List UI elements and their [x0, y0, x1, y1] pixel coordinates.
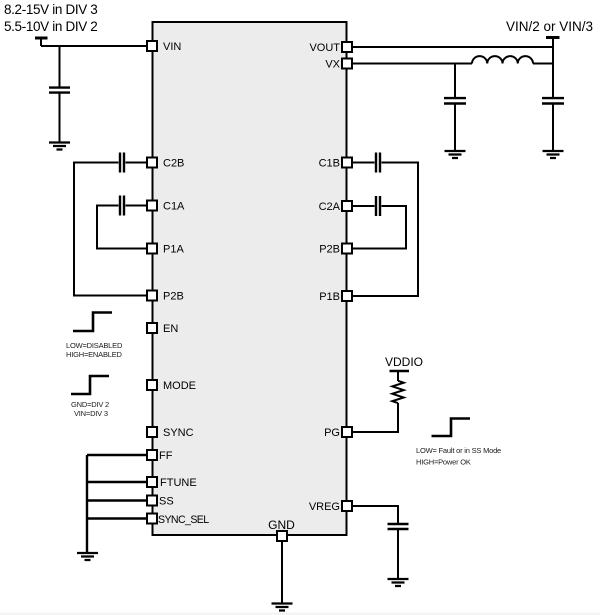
svg-text:VIN/2 or VIN/3: VIN/2 or VIN/3	[506, 19, 593, 34]
wire FF	[87, 454, 147, 456]
pin C1B	[319, 158, 352, 170]
pin C2A	[319, 201, 352, 213]
wire VIN input	[41, 45, 147, 47]
svg-text:P2B: P2B	[163, 291, 184, 303]
pin P2B left	[147, 291, 184, 303]
svg-text:EN: EN	[163, 323, 178, 335]
wire output node vertical	[552, 39, 554, 150]
svg-text:LOW=DISABLED: LOW=DISABLED	[66, 341, 123, 350]
pin VIN	[147, 41, 181, 53]
text EN levels	[66, 341, 123, 359]
wire C2B to cap	[126, 162, 148, 164]
svg-text:8.2-15V in DIV 3: 8.2-15V in DIV 3	[4, 2, 97, 17]
inductor L1	[472, 56, 533, 63]
svg-text:HIGH=ENABLED: HIGH=ENABLED	[66, 350, 123, 359]
text output node	[506, 19, 593, 34]
wire C2A loop to P2B	[352, 206, 406, 249]
wire VOUT to output node	[352, 46, 553, 48]
wire VREG cap to ground	[397, 530, 399, 578]
flying capacitor C1A-P1A	[120, 196, 124, 216]
flying capacitor C2A-P2B	[376, 196, 380, 216]
wire strap bus to ground	[86, 455, 88, 552]
bottom page edge band	[0, 613, 600, 615]
ground strap bus	[77, 553, 98, 560]
pin P2B right	[319, 244, 352, 256]
pin P1B	[319, 291, 352, 303]
wire VDDIO to resistor	[397, 372, 399, 381]
input terminal VIN	[35, 38, 48, 46]
svg-text:FTUNE: FTUNE	[160, 477, 197, 489]
pin EN	[147, 323, 178, 335]
svg-text:C1A: C1A	[163, 201, 185, 213]
wire resistor to PG	[352, 403, 398, 432]
wire C2B loop to P2B	[74, 163, 147, 296]
svg-text:VIN: VIN	[163, 41, 181, 53]
svg-text:GND: GND	[268, 518, 295, 532]
ground GND pin	[272, 604, 293, 611]
capacitor VREG	[388, 524, 409, 529]
capacitor output	[542, 98, 564, 103]
pin VREG	[309, 501, 352, 513]
wire GND pin down	[281, 541, 283, 603]
wire C2A to cap	[352, 205, 375, 207]
pin MODE	[147, 380, 196, 392]
pin P1A	[147, 244, 184, 256]
resistor pull-up R1	[392, 381, 403, 403]
text PG levels	[416, 446, 501, 467]
pin VX	[325, 59, 352, 71]
wire input cap drop	[59, 46, 61, 142]
output terminal VOUT	[546, 36, 560, 39]
flying capacitor C1B-P1B	[376, 153, 380, 173]
text MODE levels	[71, 400, 109, 418]
IC U1 body	[153, 22, 347, 535]
text GND label	[268, 518, 295, 532]
svg-text:GND=DIV 2: GND=DIV 2	[71, 400, 109, 409]
wire C1B loop to P1B	[352, 163, 418, 297]
wire FTUNE	[87, 481, 147, 483]
flying capacitor C2B-P2B	[120, 153, 124, 173]
wire C1A to cap	[126, 205, 148, 207]
wire inductor to output node	[533, 63, 553, 65]
waveform symbol EN	[73, 313, 112, 332]
pin C2B	[147, 158, 184, 170]
svg-text:LOW= Fault or in SS Mode: LOW= Fault or in SS Mode	[416, 446, 501, 455]
text VDDIO	[385, 355, 423, 369]
svg-text:P1B: P1B	[319, 291, 340, 303]
svg-text:FF: FF	[159, 450, 173, 462]
svg-text:VIN=DIV 3: VIN=DIV 3	[74, 409, 108, 418]
pin FF	[147, 450, 173, 462]
svg-text:HIGH=Power OK: HIGH=Power OK	[416, 458, 471, 467]
wire SS	[87, 499, 147, 501]
pin VOUT	[309, 42, 352, 54]
wire C1B to cap	[352, 162, 375, 164]
pin FTUNE	[147, 477, 197, 489]
pin SYNC_SEL	[147, 514, 209, 527]
svg-text:VDDIO: VDDIO	[385, 355, 423, 369]
ground input cap	[49, 143, 70, 150]
svg-text:PG: PG	[324, 427, 340, 439]
pin SYNC	[147, 427, 194, 439]
text input voltage note	[4, 2, 97, 34]
svg-text:5.5-10V in DIV 2: 5.5-10V in DIV 2	[4, 19, 97, 34]
capacitor input CIN	[49, 88, 70, 93]
pin SS	[147, 496, 174, 508]
waveform symbol MODE	[71, 376, 109, 394]
capacitor VX node	[444, 98, 466, 103]
svg-text:MODE: MODE	[163, 380, 196, 392]
waveform symbol PG	[432, 419, 471, 437]
svg-text:VREG: VREG	[309, 501, 340, 513]
ground output cap	[543, 151, 564, 158]
svg-text:P2B: P2B	[319, 244, 340, 256]
wire VX to inductor	[352, 63, 472, 65]
pin GND	[277, 531, 287, 541]
svg-text:P1A: P1A	[163, 244, 184, 256]
wire C1A loop to P1A	[97, 206, 147, 249]
svg-text:SS: SS	[159, 496, 174, 508]
svg-text:C2B: C2B	[163, 158, 184, 170]
svg-text:VX: VX	[325, 59, 340, 71]
svg-text:SYNC_SEL: SYNC_SEL	[158, 514, 209, 526]
pin PG	[324, 427, 352, 439]
terminal VDDIO	[390, 370, 410, 373]
svg-text:SYNC: SYNC	[163, 427, 194, 439]
ground VREG cap	[388, 579, 409, 586]
svg-text:VOUT: VOUT	[309, 42, 340, 54]
svg-text:C1B: C1B	[319, 158, 340, 170]
svg-text:C2A: C2A	[319, 201, 341, 213]
wire VX cap drop	[454, 64, 456, 151]
pin C1A	[147, 201, 185, 213]
wire SYNC_SEL	[87, 517, 147, 519]
wire VREG to cap	[352, 506, 398, 523]
ground VX cap	[445, 151, 466, 158]
